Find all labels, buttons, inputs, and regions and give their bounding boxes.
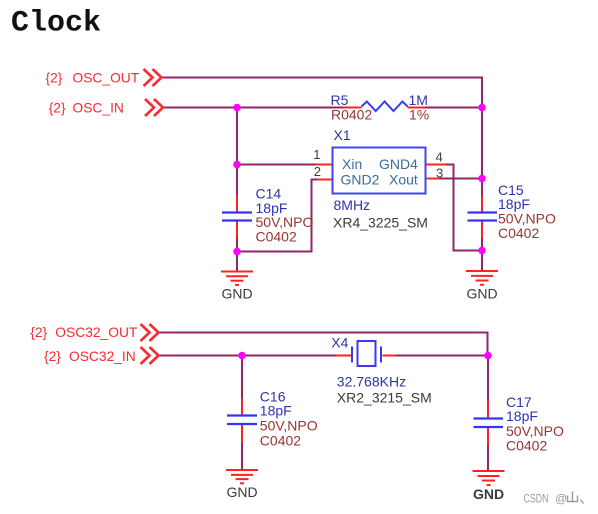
svg-text:@: @ [555,492,567,506]
svg-text:GND4: GND4 [379,156,418,172]
svg-text:Xout: Xout [389,172,418,188]
svg-text:C0402: C0402 [256,229,297,245]
svg-text:1: 1 [313,147,320,162]
svg-text:X4: X4 [331,335,348,351]
svg-text:{2}: {2} [44,349,61,364]
svg-text:{2}: {2} [46,70,63,85]
svg-text:XR4_3225_SM: XR4_3225_SM [333,215,428,231]
svg-text:OSC32_IN: OSC32_IN [69,349,136,364]
svg-text:1%: 1% [409,107,429,123]
svg-text:18pF: 18pF [260,403,292,419]
svg-text:Clock: Clock [11,7,101,41]
svg-text:50V,NPO: 50V,NPO [260,418,318,434]
svg-text:OSC32_OUT: OSC32_OUT [55,325,138,340]
svg-text:CSDN: CSDN [524,492,549,506]
svg-text:{2}: {2} [49,100,66,115]
svg-text:50V,NPO: 50V,NPO [506,423,564,439]
svg-text:{2}: {2} [30,325,47,340]
svg-text:R0402: R0402 [331,107,372,123]
svg-text:X1: X1 [334,127,351,143]
svg-text:4: 4 [436,150,443,165]
svg-text:32.768KHz: 32.768KHz [337,374,406,390]
svg-text:OSC_IN: OSC_IN [73,100,124,115]
svg-text:OSC_OUT: OSC_OUT [73,70,140,85]
svg-text:Xin: Xin [342,156,362,172]
svg-text:2: 2 [314,164,321,179]
svg-text:GND: GND [466,286,497,302]
svg-text:C0402: C0402 [506,438,547,454]
svg-text:8MHz: 8MHz [334,197,371,213]
svg-text:GND: GND [221,286,252,302]
svg-text:GND: GND [226,484,257,500]
svg-text:3: 3 [436,166,443,181]
svg-text:GND: GND [473,486,504,502]
svg-text:XR2_3215_SM: XR2_3215_SM [337,390,432,406]
svg-text:GND2: GND2 [341,172,380,188]
svg-text:18pF: 18pF [506,408,538,424]
svg-text:C0402: C0402 [498,225,539,241]
svg-text:C0402: C0402 [260,433,301,449]
